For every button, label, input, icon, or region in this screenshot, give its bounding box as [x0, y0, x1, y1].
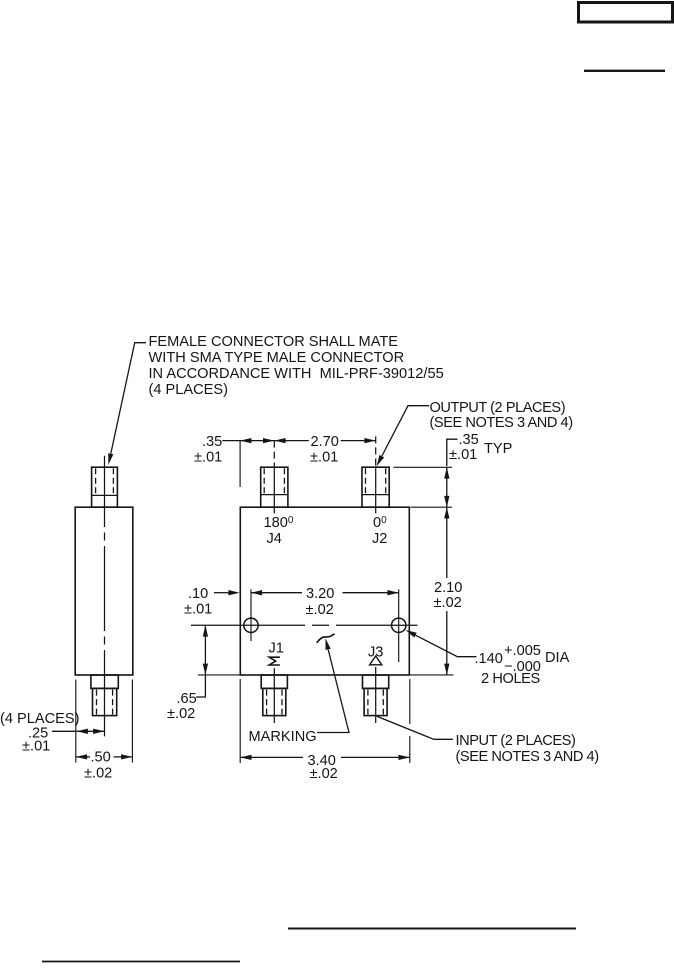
svg-text:.35: .35: [459, 432, 479, 448]
connector J2 outer: [362, 467, 389, 507]
left view bottom connector thread dashes: [96, 690, 98, 715]
dimension .10: [214, 592, 229, 594]
dimension 3.40: [240, 756, 303, 758]
svg-text:J3: J3: [368, 645, 383, 661]
connector J2 divider: [362, 494, 389, 496]
hole note leader: [416, 635, 477, 656]
svg-text:(4 PLACES): (4 PLACES): [149, 382, 228, 398]
hole centerline horizontal: [191, 624, 305, 626]
header box top right: [579, 3, 673, 23]
connector J3 thread dashes: [367, 690, 369, 715]
svg-text:(SEE NOTES 3 AND 4): (SEE NOTES 3 AND 4): [456, 749, 599, 765]
svg-text:DIA: DIA: [545, 650, 570, 666]
extension line body bottom right: [409, 674, 453, 676]
svg-text:.35: .35: [202, 434, 222, 450]
connector J3 flange: [363, 675, 389, 688]
connector J3 thread: [364, 688, 387, 715]
note text: female connector: [149, 334, 444, 398]
dimension 2.70: [274, 440, 309, 442]
sigma symbol under J1: [269, 657, 280, 665]
svg-text:±.02: ±.02: [167, 706, 195, 722]
dimension .35 TYP bracket: [447, 439, 458, 466]
svg-text:J4: J4: [267, 531, 282, 547]
svg-text:3.20: 3.20: [306, 586, 334, 602]
footer rule center: [288, 928, 576, 930]
svg-text:(SEE NOTES 3 AND 4): (SEE NOTES 3 AND 4): [430, 415, 573, 431]
extension line bottom edge left: [198, 674, 241, 676]
svg-text:+.005: +.005: [504, 643, 541, 659]
svg-text:.10: .10: [188, 586, 208, 602]
dimension .50 (left view): [76, 756, 90, 758]
left view top connector outer: [92, 467, 118, 507]
OUTPUT label: [430, 400, 573, 431]
INPUT label: [456, 733, 599, 765]
dim line .35 TYP arrows: [446, 467, 448, 507]
svg-text:±.01: ±.01: [194, 450, 222, 466]
svg-text:±.01: ±.01: [184, 602, 212, 618]
header underline top right: [584, 70, 665, 72]
dimension .65: [204, 625, 206, 675]
left view top connector thread dashes: [95, 468, 97, 494]
extension lines 3.40: [239, 679, 241, 763]
extension line body top right: [411, 506, 452, 508]
dimension 3.20: [251, 592, 302, 594]
svg-text:00: 00: [373, 515, 387, 531]
dimension 2.10: [446, 507, 448, 578]
svg-text:2.70: 2.70: [311, 434, 339, 450]
svg-text:2 HOLES: 2 HOLES: [481, 671, 541, 687]
svg-text:±.01: ±.01: [310, 450, 338, 466]
port labels: [264, 515, 388, 661]
right hole: [392, 618, 406, 632]
J4 centerline: [273, 441, 275, 466]
connector J4 thread dashes: [263, 468, 265, 494]
svg-text:J2: J2: [372, 531, 387, 547]
delta symbol under J3: [370, 656, 382, 665]
svg-text:J1: J1: [269, 641, 284, 657]
connector J1 thread dashes: [266, 690, 268, 715]
svg-text:±.02: ±.02: [84, 766, 112, 782]
MARKING text: [249, 729, 317, 745]
left view body: [75, 507, 133, 675]
connector J2 thread dashes: [365, 468, 367, 494]
dimension .25 (left view): [52, 730, 105, 732]
connector J4 divider: [261, 494, 288, 496]
J2 centerline: [375, 436, 377, 466]
front view body: [240, 507, 409, 675]
svg-text:±.01: ±.01: [22, 739, 50, 755]
left view bottom connector flange: [91, 675, 118, 688]
svg-text:1800: 1800: [264, 515, 294, 531]
leader OUTPUT to J2: [382, 406, 429, 456]
svg-text:OUTPUT (2 PLACES): OUTPUT (2 PLACES): [430, 400, 566, 416]
svg-text:.50: .50: [91, 750, 111, 766]
connector J1 flange: [261, 675, 287, 688]
left view bottom connector thread: [93, 688, 117, 715]
svg-text:TYP: TYP: [484, 441, 512, 457]
svg-text:IN ACCORDANCE WITH MIL-PRF-39: IN ACCORDANCE WITH MIL-PRF-39012/55: [149, 366, 444, 382]
left view vertical centerline: [104, 456, 106, 737]
svg-text:FEMALE CONNECTOR SHALL MATE: FEMALE CONNECTOR SHALL MATE: [149, 334, 399, 350]
extension line connector top right: [393, 466, 452, 468]
svg-text:±.02: ±.02: [434, 595, 462, 611]
left hole: [244, 618, 258, 632]
svg-text:2.10: 2.10: [434, 580, 462, 596]
svg-text:±.02: ±.02: [310, 766, 338, 782]
hole note text: [475, 643, 570, 687]
J3 centerline: [375, 667, 377, 723]
left view top connector divider: [92, 494, 118, 496]
leader from note to left view connector: [111, 343, 146, 454]
svg-text:.140: .140: [475, 651, 503, 667]
svg-text:±.02: ±.02: [306, 602, 334, 618]
dimension .35 top left: [222, 440, 274, 442]
J1 centerline: [273, 668, 275, 723]
svg-text:.65: .65: [177, 691, 197, 707]
svg-text:±.01: ±.01: [449, 447, 477, 463]
connector J4 outer: [261, 467, 288, 507]
svg-text:MARKING: MARKING: [249, 729, 317, 745]
leader INPUT to J3: [377, 716, 453, 739]
footer rule left: [42, 961, 240, 963]
left view extension lines: [75, 680, 77, 763]
marking squiggle: [317, 634, 335, 643]
marking leader: [317, 650, 349, 733]
svg-text:INPUT (2 PLACES): INPUT (2 PLACES): [456, 733, 576, 749]
svg-text:WITH SMA TYPE MALE CONNECTOR: WITH SMA TYPE MALE CONNECTOR: [149, 350, 405, 366]
connector J1 thread: [263, 688, 286, 715]
